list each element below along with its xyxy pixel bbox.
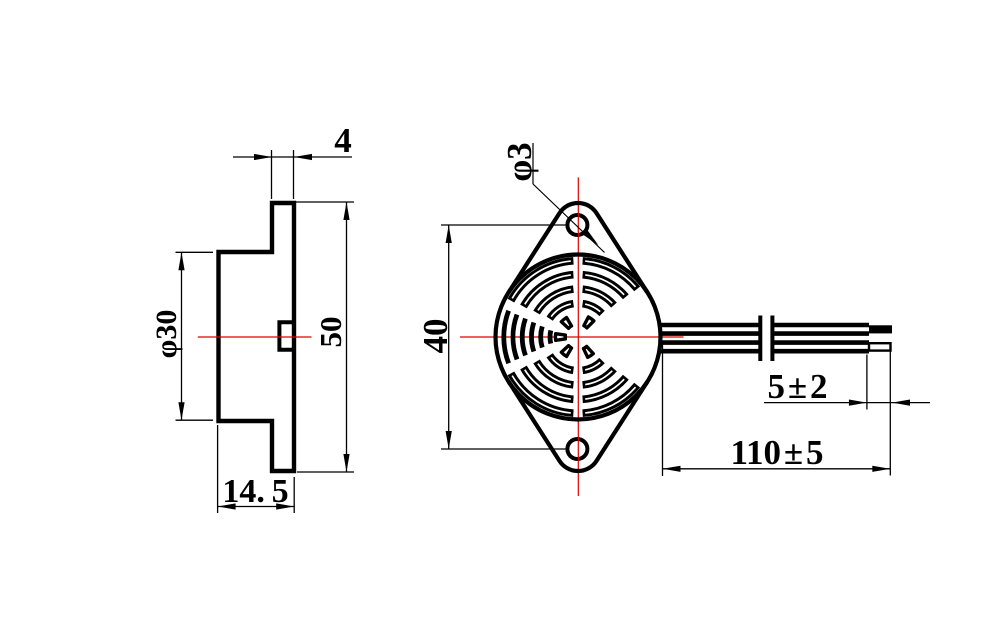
svg-text:14. 5: 14. 5	[222, 473, 288, 510]
svg-text:φ3: φ3	[500, 142, 539, 181]
svg-text:5 ± 2: 5 ± 2	[767, 367, 827, 406]
svg-text:50: 50	[313, 317, 348, 348]
svg-text:110 ± 5: 110 ± 5	[730, 433, 823, 472]
svg-text:4: 4	[334, 121, 352, 160]
svg-text:40: 40	[416, 319, 455, 354]
svg-text:φ30: φ30	[150, 310, 183, 359]
